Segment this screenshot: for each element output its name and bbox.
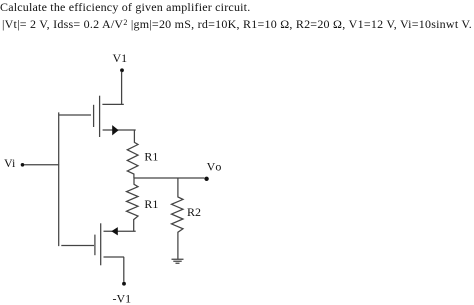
title line 2	[2, 17, 472, 32]
node -V1 terminal dot	[122, 282, 126, 286]
wire V1 to Q1 drain	[102, 72, 123, 105]
resistor R2	[172, 178, 184, 259]
svg-text:R2: R2	[187, 205, 201, 219]
resistor R1 (lower)	[127, 178, 139, 231]
wire Q2 drain to -V1	[104, 257, 125, 282]
resistor R1 (upper)	[127, 142, 138, 178]
transistor Q1	[94, 96, 136, 137]
node Vo label	[207, 159, 223, 173]
node Vo terminal dot	[204, 177, 208, 181]
resistor R1 lower value label	[144, 197, 158, 211]
transistor Q2	[95, 223, 136, 265]
node Vi terminal dot	[21, 163, 25, 167]
node V1 terminal dot	[120, 68, 124, 72]
svg-text:Vo: Vo	[207, 159, 223, 173]
svg-text:R1: R1	[144, 197, 158, 211]
resistor R1 upper value label	[144, 150, 158, 164]
node -V1 label	[113, 292, 132, 305]
wire Vi to input bus	[24, 164, 59, 166]
wire output node	[134, 177, 204, 179]
node V1 label	[113, 51, 128, 65]
resistor R2 value label	[187, 205, 201, 219]
title line 1	[0, 0, 250, 15]
ground	[172, 259, 184, 263]
svg-text:-V1: -V1	[113, 292, 132, 305]
transistor Q2 gate lead wire	[61, 245, 94, 247]
svg-text:V1: V1	[113, 51, 128, 65]
svg-text:Vi: Vi	[4, 156, 16, 170]
wire Q1 source to R1	[133, 130, 135, 142]
node Vi label	[4, 156, 16, 170]
svg-text:R1: R1	[144, 150, 158, 164]
transistor Q1 gate lead wire	[59, 114, 91, 116]
wire input bus	[58, 112, 60, 246]
